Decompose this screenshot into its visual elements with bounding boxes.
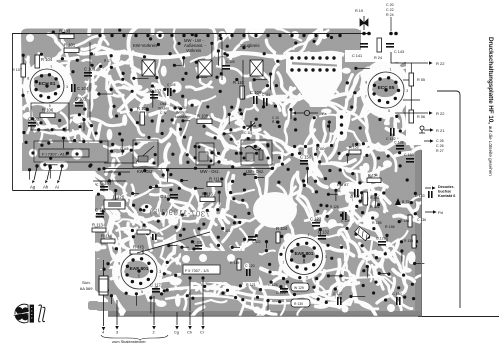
capacitor C129: [378, 241, 386, 243]
svg-text:C 107: C 107: [150, 89, 162, 94]
component group box: [31, 103, 69, 130]
svg-text:ECH 81: ECH 81: [39, 81, 56, 87]
svg-text:C 123: C 123: [310, 217, 322, 222]
svg-text:R 103: R 103: [59, 29, 71, 34]
svg-text:Vorkreis: Vorkreis: [186, 48, 201, 53]
svg-text:R 155: R 155: [372, 221, 382, 225]
svg-text:C 102: C 102: [28, 117, 40, 122]
svg-text:Ch: Ch: [187, 331, 192, 335]
connector F II: [183, 265, 220, 274]
wires Ag Ah Ai: [34, 167, 37, 180]
capacitor C103: [84, 72, 92, 74]
mirrored board number: [149, 207, 211, 219]
svg-text:C 129: C 129: [376, 237, 386, 241]
coil box KW-Osz: [133, 140, 158, 167]
svg-text:R 153: R 153: [352, 143, 361, 147]
svg-text:C 109: C 109: [226, 60, 235, 64]
svg-text:Ag: Ag: [30, 185, 36, 190]
svg-text:R 124: R 124: [268, 283, 278, 287]
capacitor C137: [354, 189, 356, 197]
svg-text:C 150: C 150: [300, 155, 312, 160]
resistor R113: [92, 228, 106, 232]
svg-text:R 22: R 22: [436, 61, 445, 66]
svg-text:1: 1: [390, 68, 392, 72]
svg-text:EAF 801: EAF 801: [130, 266, 149, 272]
svg-text:R 104: R 104: [41, 57, 53, 62]
svg-text:C 136: C 136: [417, 218, 426, 222]
svg-text:7: 7: [27, 90, 29, 94]
svg-text:Ci: Ci: [200, 331, 204, 335]
svg-text:zum Skalenstecker: zum Skalenstecker: [112, 339, 146, 344]
svg-text:C 163: C 163: [96, 183, 105, 187]
svg-text:C 120: C 120: [245, 264, 255, 268]
svg-text:5: 5: [388, 109, 390, 113]
svg-text:7: 7: [283, 261, 285, 265]
svg-text:R 141: R 141: [370, 196, 380, 200]
tube ECH81: [30, 69, 64, 103]
PCB copper plane: [21, 29, 421, 312]
resistor R115: [130, 250, 143, 254]
svg-text:Sich.: Sich.: [82, 280, 91, 285]
tube ECC85: [368, 72, 404, 108]
resistor R141: [363, 192, 368, 205]
resistor R56: [409, 110, 414, 123]
tube EAF801 I: [121, 253, 157, 289]
svg-text:R 107: R 107: [12, 68, 22, 72]
svg-text:C 101: C 101: [75, 97, 87, 102]
svg-text:8: 8: [283, 246, 285, 250]
capacitor C120: [246, 269, 248, 276]
svg-text:C 141: C 141: [352, 54, 362, 58]
resistor R103: [59, 34, 74, 39]
coil MW-LW Vorkreis: [198, 60, 212, 76]
capacitor C104: [71, 84, 73, 92]
ground + R21: [420, 126, 424, 130]
svg-text:C 130: C 130: [392, 292, 402, 296]
svg-text:C 137: C 137: [350, 195, 360, 199]
svg-text:3: 3: [406, 89, 408, 93]
capacitor C130: [396, 297, 398, 305]
logo: [14, 304, 45, 323]
diode D1: [360, 16, 368, 30]
resistor R120 box: [104, 200, 125, 209]
svg-text:C 113: C 113: [262, 93, 270, 97]
coil box LW-Osz: [241, 140, 272, 165]
svg-text:R 27: R 27: [436, 149, 444, 153]
svg-text:R 114: R 114: [101, 234, 113, 239]
svg-text:1: 1: [308, 233, 310, 237]
capacitor C119: [195, 245, 202, 247]
svg-text:C 106: C 106: [250, 90, 262, 95]
svg-text:8: 8: [118, 261, 120, 265]
svg-text:C 127: C 127: [333, 292, 343, 296]
svg-text:R 111: R 111: [209, 177, 220, 182]
svg-text:I: I: [138, 274, 139, 280]
svg-text:R 154: R 154: [368, 174, 378, 178]
capacitor C143: [386, 43, 394, 45]
resistor R108: [197, 119, 212, 124]
svg-text:3: 3: [159, 270, 161, 274]
capacitor C132: [318, 235, 326, 237]
svg-text:C 104: C 104: [77, 86, 89, 91]
wires from F II: [190, 278, 203, 311]
svg-text:C N: C N: [160, 111, 167, 115]
svg-text:C 126: C 126: [276, 291, 286, 295]
capacitor C148: [170, 194, 178, 196]
coil Saugkreis: [250, 60, 263, 76]
resistor W129: [291, 283, 309, 291]
wire to R22 top: [391, 52, 428, 63]
svg-text:2: 2: [153, 331, 155, 335]
svg-text:C 105: C 105: [167, 83, 176, 87]
resistor R119: [237, 259, 241, 270]
svg-text:5: 5: [141, 290, 143, 294]
svg-text:R 105: R 105: [137, 106, 149, 111]
svg-text:4: 4: [102, 331, 104, 335]
svg-text:R 56: R 56: [417, 115, 425, 119]
capacitor C138: [396, 145, 404, 147]
svg-text:R 101: R 101: [64, 43, 76, 48]
capacitor C107: [150, 94, 158, 96]
svg-text:C 138: C 138: [394, 141, 404, 145]
bottom pins: [116, 300, 118, 325]
capacitor C163: [100, 186, 108, 188]
svg-text:7: 7: [365, 95, 367, 99]
svg-text:C 26: C 26: [436, 139, 444, 143]
svg-text:R 19: R 19: [355, 9, 363, 13]
svg-text:C 133: C 133: [415, 194, 425, 198]
capacitor C115: [96, 213, 104, 215]
svg-text:R 24: R 24: [386, 13, 394, 17]
long wire: [104, 168, 272, 170]
svg-text:R 14: R 14: [272, 120, 279, 124]
svg-text:5: 5: [306, 276, 308, 280]
svg-text:II: II: [303, 259, 306, 265]
svg-text:3: 3: [325, 255, 327, 259]
svg-text:6A 569: 6A 569: [80, 286, 93, 291]
svg-text:W 129: W 129: [294, 286, 304, 290]
svg-text:7: 7: [118, 276, 120, 280]
Decoder label: [425, 187, 431, 189]
svg-text:R 120: R 120: [113, 195, 125, 200]
svg-text:8: 8: [365, 80, 367, 84]
capacitor C102: [28, 122, 36, 124]
svg-text:EAF 801: EAF 801: [295, 251, 314, 257]
svg-text:R 113: R 113: [92, 223, 104, 228]
resistor R117: [137, 230, 150, 234]
svg-text:Pd: Pd: [438, 210, 443, 215]
resistor R116: [200, 197, 215, 202]
coil box MW-Osz: [196, 143, 214, 165]
fuse Sich 6A: [99, 276, 108, 295]
capacitor C141: [360, 43, 368, 45]
Pd label: [425, 211, 433, 213]
vertical wires middle: [90, 40, 243, 120]
svg-text:R 121: R 121: [246, 283, 256, 287]
svg-text:MW - Osz.: MW - Osz.: [200, 169, 220, 174]
svg-text:R 108: R 108: [197, 114, 209, 119]
capacitor C165: [406, 158, 414, 160]
svg-text:buchse: buchse: [438, 190, 451, 194]
capacitor C126: [280, 288, 288, 290]
svg-text:R 119: R 119: [230, 261, 239, 265]
svg-text:3: 3: [116, 331, 118, 335]
capacitor C117: [152, 288, 160, 290]
capacitor C106: [253, 96, 255, 104]
solder pads: [22, 54, 25, 57]
svg-text:R 106: R 106: [42, 108, 54, 113]
capacitor C101: [75, 102, 83, 104]
svg-text:C 115: C 115: [95, 208, 107, 213]
svg-text:R 55: R 55: [417, 78, 425, 82]
resistor R104b: [276, 232, 280, 243]
resistor R104: [35, 55, 40, 68]
capacitor C110: [300, 160, 308, 162]
resistor R107: [21, 64, 26, 77]
svg-text:Ah: Ah: [43, 185, 49, 190]
diagonal wire: [137, 232, 210, 253]
svg-text:R 128: R 128: [330, 205, 339, 209]
svg-text:3: 3: [66, 85, 68, 89]
svg-text:Decoder-: Decoder-: [438, 185, 455, 189]
svg-text:R 104: R 104: [276, 226, 288, 231]
svg-text:ECC 85: ECC 85: [378, 85, 395, 91]
svg-text:F II 7307 - 1/3: F II 7307 - 1/3: [185, 269, 209, 273]
svg-text:8: 8: [27, 77, 29, 81]
wire R22 mid: [395, 112, 428, 114]
svg-text:1: 1: [50, 64, 52, 68]
resistor R154: [367, 178, 381, 183]
svg-text:R 17: R 17: [104, 59, 111, 63]
diode R75: [395, 198, 401, 205]
svg-text:C 117: C 117: [150, 283, 162, 288]
svg-text:Wellen-: Wellen-: [176, 110, 189, 114]
resistor R135: [412, 235, 416, 248]
svg-text:C 20: C 20: [386, 3, 394, 7]
labels C26 C26 R27: [424, 140, 430, 142]
resistor R55: [409, 73, 414, 86]
svg-text:R 116: R 116: [202, 192, 214, 197]
svg-text:KW-Osz.: KW-Osz.: [137, 169, 154, 174]
svg-text:Osz.-: Osz.-: [160, 102, 169, 106]
svg-text:C 22: C 22: [386, 8, 394, 12]
svg-text:F I 7307 - A13: F I 7307 - A13: [42, 152, 68, 157]
svg-text:Druckschaltungsplatte HF 10, a: Druckschaltungsplatte HF 10, auf die Löt…: [487, 37, 494, 176]
trimmer C111: [246, 121, 256, 131]
capacitor C142: [390, 128, 392, 136]
svg-text:LW - Osz.: LW - Osz.: [246, 169, 264, 174]
white etch areas: [95, 52, 190, 57]
svg-text:R 115: R 115: [133, 245, 145, 250]
svg-text:EM 87: EM 87: [337, 182, 349, 187]
resistor R105: [140, 112, 145, 125]
svg-text:C 165: C 165: [404, 153, 414, 157]
capacitor C123: [312, 222, 320, 224]
Fa symbol: [304, 110, 309, 115]
svg-text:schalter: schalter: [175, 115, 188, 119]
resistor R138: [408, 215, 412, 227]
pads top right: [362, 32, 366, 36]
coil diag: [355, 226, 370, 240]
svg-text:C 132: C 132: [318, 230, 330, 235]
svg-text:C 121: C 121: [222, 229, 231, 233]
resistor R24: [377, 38, 382, 52]
svg-text:R 142: R 142: [370, 205, 380, 209]
svg-text:R 156: R 156: [385, 225, 395, 229]
Cg Ch Ci: [176, 312, 178, 325]
svg-text:Spulen: Spulen: [158, 106, 169, 110]
svg-text:R 138: R 138: [400, 219, 409, 223]
resistor R101: [64, 48, 79, 53]
svg-text:C 119: C 119: [193, 241, 202, 245]
svg-text:Cg: Cg: [174, 331, 179, 335]
resistor R153: [349, 150, 361, 154]
svg-text:C 111: C 111: [244, 131, 253, 135]
svg-text:C 165: C 165: [120, 147, 129, 151]
svg-text:R 130: R 130: [294, 302, 303, 306]
resistor R110: [240, 86, 245, 99]
svg-text:C 143: C 143: [394, 50, 404, 54]
resistor R114: [101, 239, 115, 243]
svg-text:B 75: B 75: [402, 200, 409, 204]
svg-text:R 22: R 22: [436, 111, 445, 116]
svg-text:KW-Vorkreis: KW-Vorkreis: [133, 43, 158, 48]
resistor R130: [291, 299, 310, 307]
wires left-mid: [93, 163, 137, 181]
connector F I: [39, 149, 89, 157]
tube EAF801 II: [286, 238, 323, 275]
svg-text:R 135: R 135: [404, 239, 413, 243]
svg-text:Ai: Ai: [55, 185, 59, 190]
svg-text:R 117: R 117: [138, 226, 147, 230]
svg-text:Saugkreis: Saugkreis: [240, 43, 260, 48]
svg-text:C 115: C 115: [178, 106, 187, 110]
svg-text:R 24: R 24: [374, 56, 382, 60]
resistor R106: [40, 113, 55, 118]
svg-text:C 148: C 148: [160, 194, 172, 199]
resistor R111: [207, 182, 222, 187]
svg-text:C 26: C 26: [436, 144, 444, 148]
svg-text:C 150: C 150: [316, 147, 325, 151]
capacitor C127: [337, 297, 339, 305]
vertical title: [487, 37, 494, 176]
svg-text:Kontakt 6: Kontakt 6: [438, 194, 455, 198]
coil KW-Vorkreis: [142, 60, 155, 76]
svg-text:R 21: R 21: [436, 128, 445, 133]
